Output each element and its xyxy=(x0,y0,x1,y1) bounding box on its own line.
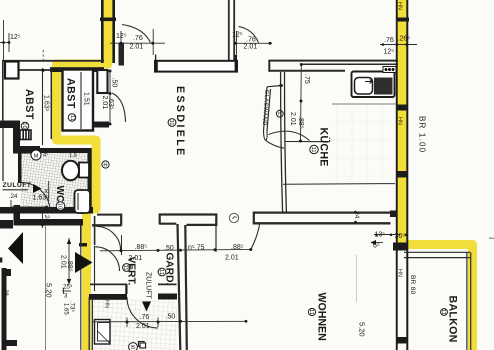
svg-text:24: 24 xyxy=(353,212,359,219)
svg-text:.88⁵: .88⁵ xyxy=(297,116,304,129)
svg-text:.50: .50 xyxy=(110,78,117,88)
svg-text:1.51: 1.51 xyxy=(83,92,90,106)
svg-text:2.01: 2.01 xyxy=(136,323,150,330)
svg-text:.76: .76 xyxy=(384,37,394,44)
svg-text:.73⁵: .73⁵ xyxy=(69,301,76,312)
svg-text:KÜCHE: KÜCHE xyxy=(318,128,331,167)
svg-text:5.20: 5.20 xyxy=(45,283,54,298)
svg-text:11: 11 xyxy=(69,115,75,121)
svg-text:BALKON: BALKON xyxy=(447,296,459,343)
svg-text:M: M xyxy=(34,154,39,160)
svg-text:HN: HN xyxy=(397,117,403,125)
svg-text:1.65: 1.65 xyxy=(63,303,69,315)
svg-text:2.01: 2.01 xyxy=(289,112,296,126)
svg-text:2.01: 2.01 xyxy=(130,44,144,51)
svg-text:H: H xyxy=(103,163,107,169)
svg-text:2.01: 2.01 xyxy=(129,255,143,262)
svg-text:.88⁵: .88⁵ xyxy=(66,259,73,272)
svg-text:11: 11 xyxy=(310,146,316,152)
svg-text:24: 24 xyxy=(43,215,49,222)
svg-text:.76: .76 xyxy=(140,314,150,321)
svg-text:13⁵: 13⁵ xyxy=(375,232,386,239)
svg-text:2.01: 2.01 xyxy=(225,255,239,262)
svg-text:11: 11 xyxy=(440,309,446,315)
svg-text:10: 10 xyxy=(21,122,27,128)
svg-text:1.63⁵: 1.63⁵ xyxy=(43,95,50,112)
svg-text:.50: .50 xyxy=(164,245,174,252)
svg-text:HN: HN xyxy=(104,300,110,308)
svg-text:10: 10 xyxy=(57,203,63,209)
svg-text:2.01: 2.01 xyxy=(244,44,258,51)
svg-text:WOHNEN: WOHNEN xyxy=(316,293,328,341)
svg-text:.25⁵: .25⁵ xyxy=(62,284,73,291)
svg-text:ABST: ABST xyxy=(23,89,35,120)
svg-text:11: 11 xyxy=(122,264,128,270)
svg-text:HN: HN xyxy=(397,2,403,10)
svg-text:x: x xyxy=(45,188,49,195)
svg-text:1.63⁵: 1.63⁵ xyxy=(33,195,50,202)
svg-text:B: B xyxy=(131,345,135,350)
svg-text:2.01: 2.01 xyxy=(101,96,108,110)
svg-text:ZULUFT: ZULUFT xyxy=(145,272,152,300)
svg-text:.76: .76 xyxy=(246,37,256,44)
svg-text:.38: .38 xyxy=(3,288,9,296)
svg-text:36⁵: 36⁵ xyxy=(395,233,406,240)
svg-text:.88⁵: .88⁵ xyxy=(135,244,148,251)
svg-text:WC: WC xyxy=(54,186,65,203)
svg-text:12⁵: 12⁵ xyxy=(10,34,21,41)
svg-text:.50: .50 xyxy=(166,313,176,320)
svg-text:.24: .24 xyxy=(9,194,18,200)
svg-text:.88⁵: .88⁵ xyxy=(231,244,244,251)
svg-text:6⁵: 6⁵ xyxy=(373,243,380,250)
svg-text:.26⁵: .26⁵ xyxy=(398,36,411,43)
svg-text:11: 11 xyxy=(308,309,314,315)
svg-text:4⁵: 4⁵ xyxy=(43,152,48,159)
svg-text:.75: .75 xyxy=(303,74,310,84)
svg-text:12⁵: 12⁵ xyxy=(116,33,127,40)
svg-text:12⁵: 12⁵ xyxy=(232,32,243,39)
svg-text:n⁵ 75: n⁵ 75 xyxy=(188,245,205,252)
svg-text:11: 11 xyxy=(168,119,174,125)
svg-text:1.9: 1.9 xyxy=(69,153,77,159)
svg-text:ABST: ABST xyxy=(65,78,77,109)
svg-text:5.20: 5.20 xyxy=(358,322,367,337)
svg-text:HN: HN xyxy=(397,269,403,277)
svg-text:BR 80: BR 80 xyxy=(409,275,416,295)
svg-text:.76: .76 xyxy=(133,35,143,42)
svg-text:11: 11 xyxy=(158,269,164,275)
svg-text:12⁵: 12⁵ xyxy=(384,49,395,56)
svg-text:ZULUFT: ZULUFT xyxy=(3,182,32,189)
svg-text:BR 1.00: BR 1.00 xyxy=(418,116,427,153)
svg-text:2.01: 2.01 xyxy=(60,255,67,269)
svg-text:.63⁵: .63⁵ xyxy=(107,97,114,110)
